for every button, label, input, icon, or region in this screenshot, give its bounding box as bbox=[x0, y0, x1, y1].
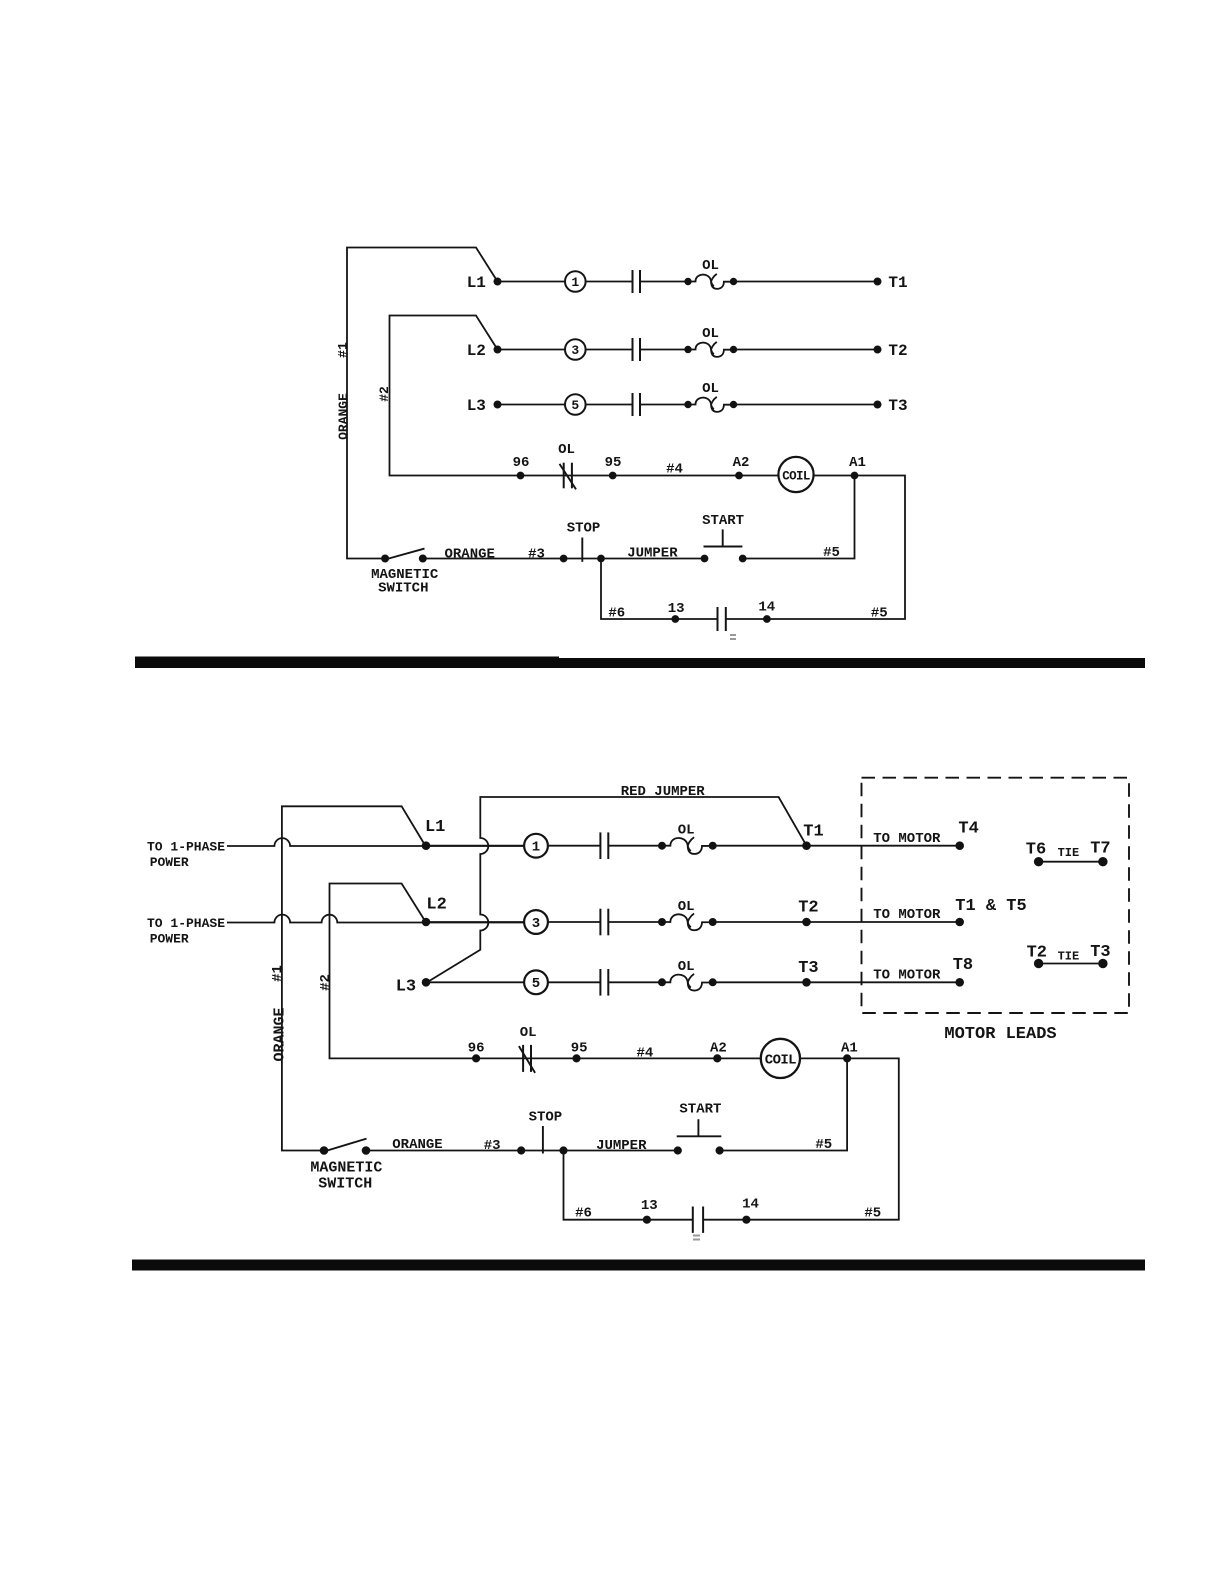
svg-text:STOP: STOP bbox=[529, 1110, 563, 1126]
svg-text:95: 95 bbox=[571, 1040, 588, 1056]
svg-text:OL: OL bbox=[520, 1025, 537, 1041]
svg-text:T1: T1 bbox=[803, 822, 823, 841]
svg-text:L2: L2 bbox=[426, 896, 446, 915]
svg-text:OL: OL bbox=[702, 258, 719, 274]
svg-text:#5: #5 bbox=[815, 1137, 832, 1153]
svg-text:MAGNETIC: MAGNETIC bbox=[310, 1159, 382, 1176]
svg-text:T2: T2 bbox=[798, 899, 818, 918]
svg-text:START: START bbox=[702, 513, 744, 529]
svg-text:START: START bbox=[679, 1102, 721, 1118]
svg-text:T2: T2 bbox=[1027, 943, 1047, 962]
svg-text:L3: L3 bbox=[467, 397, 486, 415]
svg-text:1: 1 bbox=[532, 840, 540, 856]
svg-text:95: 95 bbox=[605, 455, 622, 471]
svg-text:L1: L1 bbox=[467, 274, 486, 292]
svg-text:COIL: COIL bbox=[782, 469, 810, 483]
svg-text:L2: L2 bbox=[467, 342, 486, 360]
svg-text:OL: OL bbox=[678, 899, 695, 915]
svg-text:TO MOTOR: TO MOTOR bbox=[873, 967, 941, 983]
svg-text:96: 96 bbox=[468, 1040, 485, 1056]
svg-text:1: 1 bbox=[571, 275, 579, 290]
svg-text:OL: OL bbox=[678, 823, 695, 839]
svg-text:13: 13 bbox=[641, 1198, 658, 1214]
svg-text:OL: OL bbox=[558, 442, 575, 458]
svg-text:COIL: COIL bbox=[765, 1053, 796, 1069]
svg-text:OL: OL bbox=[702, 381, 719, 397]
svg-text:T3: T3 bbox=[888, 397, 907, 415]
svg-text:TO MOTOR: TO MOTOR bbox=[873, 831, 941, 847]
svg-text:T2: T2 bbox=[888, 342, 907, 360]
svg-text:STOP: STOP bbox=[567, 520, 601, 536]
svg-text:ORANGE: ORANGE bbox=[336, 393, 351, 440]
svg-text:14: 14 bbox=[758, 600, 775, 616]
svg-text:3: 3 bbox=[571, 343, 579, 358]
svg-text:JUMPER: JUMPER bbox=[627, 546, 678, 562]
svg-text:T7: T7 bbox=[1090, 840, 1110, 859]
svg-text:TO MOTOR: TO MOTOR bbox=[873, 907, 941, 923]
svg-text:TO 1-PHASE: TO 1-PHASE bbox=[147, 916, 225, 931]
svg-text:POWER: POWER bbox=[150, 932, 189, 947]
svg-text:L1: L1 bbox=[425, 818, 445, 837]
svg-text:OL: OL bbox=[678, 959, 695, 975]
svg-text:MOTOR LEADS: MOTOR LEADS bbox=[944, 1025, 1056, 1044]
svg-text:14: 14 bbox=[742, 1197, 759, 1213]
svg-text:#1: #1 bbox=[336, 342, 351, 358]
svg-text:SWITCH: SWITCH bbox=[318, 1175, 372, 1192]
svg-text:TO 1-PHASE: TO 1-PHASE bbox=[147, 840, 225, 855]
svg-text:#3: #3 bbox=[528, 546, 545, 562]
svg-text:A2: A2 bbox=[710, 1040, 727, 1056]
svg-text:T1 & T5: T1 & T5 bbox=[955, 897, 1026, 916]
svg-text:TIE: TIE bbox=[1058, 950, 1080, 964]
svg-text:T1: T1 bbox=[888, 274, 907, 292]
svg-text:T8: T8 bbox=[953, 956, 973, 975]
svg-text:RED JUMPER: RED JUMPER bbox=[621, 784, 706, 800]
svg-text:#1: #1 bbox=[270, 965, 286, 982]
svg-text:A1: A1 bbox=[841, 1040, 858, 1056]
svg-text:SWITCH: SWITCH bbox=[378, 581, 428, 597]
svg-text:TIE: TIE bbox=[1058, 846, 1080, 860]
svg-text:T4: T4 bbox=[958, 820, 978, 839]
svg-text:ORANGE: ORANGE bbox=[444, 546, 494, 562]
svg-text:ORANGE: ORANGE bbox=[392, 1137, 442, 1153]
svg-text:ORANGE: ORANGE bbox=[272, 1007, 289, 1061]
svg-text:3: 3 bbox=[532, 916, 540, 932]
svg-text:T3: T3 bbox=[1090, 943, 1110, 962]
svg-text:L3: L3 bbox=[396, 977, 416, 996]
svg-text:JUMPER: JUMPER bbox=[596, 1138, 647, 1154]
svg-text:A2: A2 bbox=[733, 455, 750, 471]
svg-text:#5: #5 bbox=[871, 605, 888, 621]
svg-text:#2: #2 bbox=[377, 386, 392, 402]
svg-text:96: 96 bbox=[513, 455, 530, 471]
svg-text:13: 13 bbox=[668, 601, 685, 617]
svg-text:#5: #5 bbox=[864, 1205, 881, 1221]
svg-text:T6: T6 bbox=[1026, 841, 1046, 860]
svg-text:#2: #2 bbox=[318, 974, 334, 991]
svg-text:#3: #3 bbox=[484, 1138, 501, 1154]
svg-text:5: 5 bbox=[571, 398, 579, 413]
svg-text:OL: OL bbox=[702, 326, 719, 342]
svg-text:POWER: POWER bbox=[150, 855, 189, 870]
svg-text:5: 5 bbox=[532, 976, 540, 992]
svg-text:#6: #6 bbox=[575, 1205, 592, 1221]
svg-text:T3: T3 bbox=[798, 959, 818, 978]
svg-text:#5: #5 bbox=[823, 545, 840, 561]
svg-text:#4: #4 bbox=[636, 1046, 653, 1062]
svg-text:#4: #4 bbox=[666, 461, 683, 477]
svg-text:#6: #6 bbox=[608, 606, 625, 622]
svg-text:A1: A1 bbox=[849, 455, 866, 471]
